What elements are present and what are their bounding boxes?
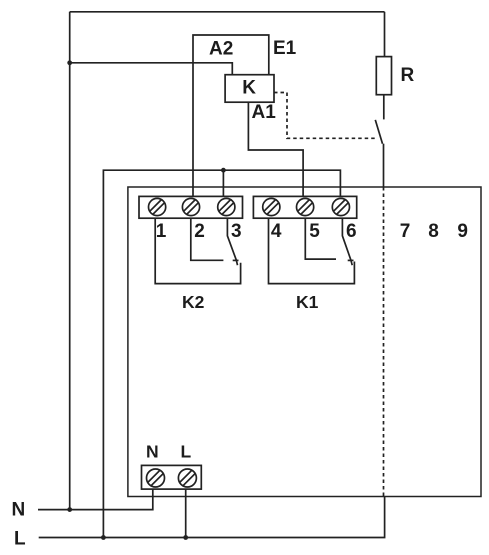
screw terminal 3 bbox=[218, 198, 235, 215]
terminal block N L bbox=[142, 465, 202, 489]
node junction L rail / L bus bbox=[101, 535, 106, 540]
contact K2 wire from terminal 1 bbox=[155, 219, 240, 284]
svg-text:1: 1 bbox=[156, 221, 167, 242]
svg-text:A1: A1 bbox=[252, 102, 277, 123]
svg-text:N: N bbox=[12, 500, 26, 521]
svg-text:8: 8 bbox=[428, 221, 439, 242]
wire L rail: bottom bus up left side across to terminal 6 bbox=[103, 170, 340, 537]
terminal strip 1-2-3 bbox=[139, 196, 243, 218]
wire bottom L bus bbox=[39, 497, 385, 538]
svg-text:4: 4 bbox=[271, 221, 282, 242]
svg-text:L: L bbox=[14, 529, 26, 550]
contact K1 lever tip bar bbox=[348, 259, 354, 261]
svg-text:3: 3 bbox=[231, 221, 242, 242]
wire resistor feed bbox=[384, 12, 386, 57]
wire switch to device box bbox=[383, 144, 385, 187]
screw terminal 4 bbox=[263, 198, 280, 215]
resistor R bbox=[376, 57, 391, 95]
screw terminal 2 bbox=[182, 198, 199, 215]
svg-text:N: N bbox=[146, 442, 159, 462]
device enclosure box bbox=[128, 187, 481, 497]
svg-text:9: 9 bbox=[457, 221, 468, 242]
svg-text:R: R bbox=[401, 65, 415, 86]
svg-text:E1: E1 bbox=[273, 38, 297, 59]
svg-text:K2: K2 bbox=[182, 292, 205, 312]
wire top bus L1 bbox=[70, 11, 385, 13]
svg-text:5: 5 bbox=[309, 221, 320, 242]
contact K1 wire from terminal 4 bbox=[269, 219, 355, 284]
contact K2 wire from terminal 2 bbox=[191, 219, 224, 261]
svg-text:K: K bbox=[242, 78, 256, 99]
contact K2 lever tip bar bbox=[233, 259, 239, 261]
svg-text:7: 7 bbox=[400, 221, 411, 242]
screw terminal 5 bbox=[297, 198, 314, 215]
svg-text:L: L bbox=[181, 442, 192, 462]
svg-text:2: 2 bbox=[194, 221, 205, 242]
switch S lever bbox=[375, 120, 382, 144]
wire branch to terminal 3 bbox=[222, 170, 224, 196]
svg-text:A2: A2 bbox=[209, 39, 233, 60]
wire dashed L path inside device bbox=[383, 187, 385, 497]
contact K1 lever tip point bbox=[351, 260, 352, 265]
contact K2 lever tip point bbox=[236, 260, 237, 265]
wire L terminal drop bbox=[185, 489, 187, 537]
screw terminal L bbox=[178, 469, 196, 487]
svg-text:6: 6 bbox=[346, 221, 357, 242]
screw terminal 1 bbox=[149, 198, 166, 215]
terminal strip 4-5-6 bbox=[253, 196, 356, 218]
node junction L terminal / L bus bbox=[183, 535, 188, 540]
wire A1 coil bottom to terminal 5 bbox=[248, 102, 303, 196]
svg-text:K1: K1 bbox=[296, 292, 319, 312]
contact K1 wire from terminal 5 bbox=[305, 219, 336, 260]
node junction terminal 3 branch bbox=[221, 168, 226, 173]
contact K1 lever from terminal 6 bbox=[342, 219, 351, 261]
wire left N rail vertical bbox=[69, 12, 71, 510]
relay coil K bbox=[225, 75, 274, 103]
wire resistor to switch bbox=[383, 95, 385, 120]
dashed mechanical link K to switch bbox=[274, 93, 377, 139]
wire A2 loop: terminal 2 up, across, down to coil bbox=[193, 35, 269, 196]
node junction N rail bottom bbox=[67, 507, 72, 512]
screw terminal N bbox=[147, 469, 165, 487]
screw terminal 6 bbox=[332, 198, 349, 215]
wire N terminal to left N lead bbox=[38, 489, 153, 510]
contact K2 lever from terminal 3 bbox=[227, 219, 236, 261]
wire left rail to coil K top bbox=[70, 63, 233, 75]
node junction left rail / coil branch bbox=[67, 60, 72, 65]
